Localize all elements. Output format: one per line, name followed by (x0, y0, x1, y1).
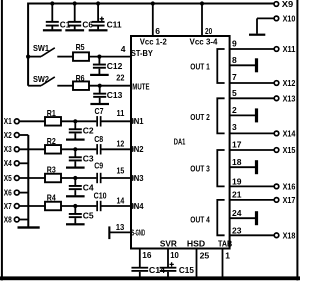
capacitor C2 (74, 121, 76, 128)
svg-text:11: 11 (117, 108, 125, 118)
svg-text:23: 23 (232, 225, 242, 235)
wire input ground bus (27, 135, 29, 227)
svg-text:X13: X13 (283, 93, 296, 103)
wire pin 21 to X17 (230, 199, 275, 201)
svg-text:13: 13 (116, 222, 125, 232)
capacitor C15 (160, 267, 177, 269)
svg-text:OUT 1: OUT 1 (190, 62, 210, 72)
svg-text:X11: X11 (283, 44, 296, 54)
ground pin 18 bar (255, 160, 258, 174)
terminal X7 (14, 204, 19, 209)
svg-text:C11: C11 (107, 20, 122, 30)
terminal X15 (274, 148, 279, 153)
wire pin 8 to ground (230, 64, 256, 66)
terminal X14 (274, 131, 279, 136)
terminal X11 (274, 47, 279, 52)
wire C10 to pin 14 (102, 205, 132, 207)
svg-text:19: 19 (232, 177, 242, 187)
svg-text:X8: X8 (4, 214, 12, 224)
node top rail / C11 (96, 1, 100, 5)
capacitor C1 (51, 4, 53, 22)
svg-text:R2: R2 (47, 136, 56, 146)
terminal X12 (274, 81, 279, 86)
ground input bus bar (18, 226, 40, 228)
wire R1 to C7 (61, 120, 96, 122)
svg-text:R3: R3 (47, 165, 56, 175)
wire X2 to ground bus (19, 134, 28, 136)
svg-text:C5: C5 (83, 210, 94, 220)
node R2 / C3 (73, 147, 77, 151)
node top rail / pin 20 (200, 1, 204, 5)
wire ground to pin 13 (109, 231, 130, 233)
svg-text:15: 15 (117, 166, 125, 176)
svg-text:C6: C6 (82, 20, 93, 30)
svg-text:X7: X7 (4, 201, 12, 211)
node top rail / C1 (50, 1, 54, 5)
capacitor C13 (99, 86, 101, 93)
wire pin 19 to X16 (230, 185, 275, 187)
terminal X16 (274, 184, 279, 189)
wire pin 7 to X12 (230, 82, 275, 84)
node R1 / C2 (73, 119, 77, 123)
terminal X6 (14, 190, 19, 195)
svg-text:R6: R6 (76, 73, 85, 83)
ground pin 24 bar (255, 211, 258, 225)
svg-text:18: 18 (232, 157, 242, 167)
wire R4 to C10 (61, 205, 96, 207)
svg-text:S-GND: S-GND (131, 228, 145, 238)
ground S-GND bar (108, 226, 110, 239)
ground X10 bar (249, 34, 265, 36)
wire pin 1 stub (222, 249, 224, 277)
node MUTE / C13 (98, 84, 102, 88)
terminal X10 (274, 16, 279, 21)
node R3 / C4 (73, 176, 77, 180)
capacitor C6 (74, 4, 76, 22)
capacitor C11 (97, 4, 99, 22)
resistor R3 (45, 174, 61, 183)
terminal X4 (14, 161, 19, 166)
wire X3 to R2 (19, 148, 45, 150)
resistor R5 (73, 52, 89, 61)
svg-text:C8: C8 (94, 134, 103, 144)
svg-text:R1: R1 (47, 108, 56, 118)
svg-text:8: 8 (232, 55, 237, 65)
svg-text:C2: C2 (83, 126, 94, 136)
capacitor C15 polarity + (170, 262, 174, 266)
terminal X17 (274, 198, 279, 203)
wire R6 to pin 22 (89, 85, 131, 87)
svg-text:6: 6 (155, 26, 160, 36)
svg-text:X2: X2 (4, 130, 12, 140)
svg-text:9: 9 (232, 39, 237, 49)
wire pin 16 stub (139, 249, 141, 268)
svg-text:Vcc 3-4: Vcc 3-4 (190, 37, 218, 47)
bracket OUT 3 (217, 150, 224, 186)
terminal X3 (14, 147, 19, 152)
capacitor C12 (98, 57, 100, 64)
svg-text:C13: C13 (107, 90, 123, 100)
resistor R2 (45, 145, 61, 154)
wire R5 to pin 4 (89, 56, 131, 58)
wire pin 18 to ground (230, 166, 256, 168)
svg-text:4: 4 (121, 44, 126, 54)
capacitor C8 (96, 144, 98, 154)
bracket OUT 1 (217, 49, 224, 83)
svg-text:X1: X1 (4, 116, 12, 126)
svg-text:Vcc 1-2: Vcc 1-2 (140, 37, 167, 47)
capacitor C11 polarity + (100, 17, 104, 21)
svg-text:SW1: SW1 (33, 43, 49, 53)
wire R3 to C9 (61, 177, 96, 179)
wire C9 to pin 15 (102, 177, 132, 179)
svg-text:X5: X5 (4, 173, 12, 183)
bracket OUT 4 (217, 200, 224, 235)
wire pin 24 to ground (230, 217, 256, 219)
terminal X5 (14, 176, 19, 181)
svg-text:C4: C4 (83, 182, 94, 192)
wire X5 to R3 (19, 177, 45, 179)
svg-text:X16: X16 (283, 182, 296, 192)
svg-text:20: 20 (205, 26, 212, 36)
svg-text:OUT 2: OUT 2 (190, 112, 210, 122)
wire pin 9 to X11 (230, 48, 275, 50)
svg-text:MUTE: MUTE (132, 81, 149, 91)
svg-text:ST-BY: ST-BY (131, 48, 153, 58)
node top rail / pin 6 (151, 1, 155, 5)
capacitor C10 (96, 201, 98, 211)
svg-text:X12: X12 (283, 78, 296, 88)
svg-text:10: 10 (170, 250, 179, 260)
wire pin 6 stub (152, 4, 154, 37)
svg-text:1: 1 (225, 251, 230, 261)
pin pad 15 (132, 176, 136, 180)
wire C7 to pin 11 (102, 120, 132, 122)
svg-text:C3: C3 (83, 154, 94, 164)
wire pin 23 to X18 (230, 234, 275, 236)
svg-text:IN4: IN4 (132, 201, 144, 211)
capacitor C7 (96, 116, 98, 126)
pin pad 14 (132, 204, 136, 208)
svg-text:21: 21 (232, 190, 242, 200)
svg-text:X4: X4 (4, 158, 12, 168)
svg-text:IN3: IN3 (132, 173, 144, 183)
wire right border rail (296, 0, 298, 280)
resistor R1 (45, 117, 61, 126)
terminal X18 (274, 233, 279, 238)
terminal X8 (14, 217, 19, 222)
svg-text:OUT 4: OUT 4 (190, 215, 210, 225)
svg-text:C14: C14 (149, 265, 165, 275)
svg-text:OUT 3: OUT 3 (190, 163, 210, 173)
wire pin 3 to X14 (230, 132, 275, 134)
svg-text:HSD: HSD (187, 239, 205, 249)
capacitor C9 (96, 173, 98, 183)
terminal X1 (14, 119, 19, 124)
wire left vertical rail to switches (27, 3, 29, 86)
resistor R4 (45, 202, 61, 211)
svg-text:5: 5 (232, 88, 237, 98)
terminal X13 (274, 96, 279, 101)
capacitor C14 (131, 267, 148, 269)
wire pin 20 stub (201, 4, 203, 37)
svg-text:X17: X17 (283, 195, 296, 205)
svg-text:TAB: TAB (218, 239, 232, 249)
pin pad 11 (132, 120, 136, 124)
svg-text:X6: X6 (4, 188, 12, 198)
svg-text:X3: X3 (4, 144, 12, 154)
wire +supply top rail (28, 3, 274, 5)
svg-text:SVR: SVR (160, 239, 177, 249)
svg-text:25: 25 (200, 251, 210, 261)
svg-text:DA1: DA1 (174, 136, 186, 146)
capacitor C5 (74, 206, 76, 213)
svg-text:C9: C9 (94, 161, 103, 171)
terminal X2 (14, 133, 19, 138)
wire left border rail (1, 0, 3, 280)
node ST-BY / C12 (97, 55, 101, 59)
capacitor C4 (74, 178, 76, 185)
wire X7 to R4 (19, 205, 45, 207)
wire pin 25 stub (196, 249, 198, 277)
svg-text:12: 12 (117, 138, 125, 148)
ground pin 2 bar (255, 108, 258, 122)
node rail / SW1 (26, 55, 30, 59)
svg-text:C10: C10 (94, 190, 107, 200)
pin pad 12 (132, 148, 136, 152)
svg-text:16: 16 (142, 250, 151, 260)
node R4 / C5 (73, 204, 77, 208)
ground pin 8 bar (255, 58, 258, 72)
wire pin 5 to X13 (230, 97, 275, 99)
svg-text:X14: X14 (283, 129, 296, 139)
svg-text:14: 14 (117, 195, 125, 205)
svg-text:IN1: IN1 (132, 116, 144, 126)
terminal X9 (274, 2, 279, 7)
wire pin 2 to ground (230, 114, 256, 116)
svg-text:R4: R4 (47, 193, 56, 203)
wire R2 to C8 (61, 148, 96, 150)
wire C8 to pin 12 (102, 148, 132, 150)
op-amp U1 DA1 body (131, 36, 230, 249)
svg-text:C7: C7 (95, 106, 104, 116)
svg-text:IN2: IN2 (132, 144, 144, 154)
wire X1 to R1 (19, 120, 45, 122)
svg-text:17: 17 (232, 140, 242, 150)
wire X10 to ground (257, 17, 274, 19)
svg-text:X9: X9 (282, 0, 294, 9)
svg-text:24: 24 (232, 208, 242, 218)
wire pin 17 to X15 (230, 149, 275, 151)
resistor R6 (73, 81, 89, 90)
wire X6 to ground bus (19, 192, 28, 194)
capacitor C3 (74, 149, 76, 156)
svg-text:R5: R5 (76, 42, 85, 52)
wire X4 to ground bus (19, 162, 28, 164)
svg-text:C12: C12 (107, 61, 123, 71)
svg-text:3: 3 (232, 122, 237, 132)
svg-text:C15: C15 (179, 265, 194, 275)
svg-text:2: 2 (232, 105, 237, 115)
ground bottom supply rail (0, 276, 300, 280)
svg-text:X15: X15 (283, 145, 296, 155)
svg-text:X18: X18 (283, 230, 296, 240)
bracket OUT 2 (217, 98, 224, 133)
wire pin 10 stub (167, 249, 169, 268)
svg-text:X10: X10 (283, 13, 296, 23)
svg-text:7: 7 (232, 72, 237, 82)
wire X8 to ground bus (19, 219, 28, 221)
node top rail / C6 (73, 1, 77, 5)
svg-text:22: 22 (116, 73, 124, 83)
